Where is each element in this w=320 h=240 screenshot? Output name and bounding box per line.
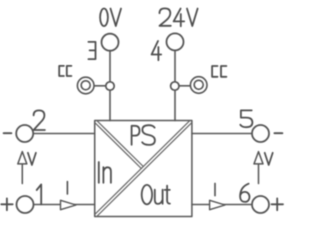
terminal 5 circle: [252, 125, 269, 142]
minus sign at terminal 2: [4, 132, 12, 134]
minus sign at terminal 5: [274, 132, 282, 134]
label cc (left): [59, 66, 71, 76]
plus sign at terminal 6: [272, 198, 284, 210]
wire box right edge to terminal 6: [192, 204, 252, 206]
terminal 3 circle: [102, 34, 119, 51]
input voltage arrow (up): [18, 152, 27, 184]
wire from terminal 3 down to PS box top: [109, 51, 111, 121]
label V at input voltage arrow: [28, 153, 36, 165]
terminal 2 circle: [16, 125, 33, 142]
wire terminal 1 to box left edge: [34, 204, 95, 206]
PS box outline U1: [95, 121, 192, 217]
current arrow on output wire: [210, 200, 225, 209]
label I at output current arrow: [214, 183, 216, 195]
label 2 (terminal number): [34, 110, 45, 130]
PS separator half-diagonal (double line) top-left to center: [95, 121, 144, 169]
wire terminal 2 to box left edge: [34, 133, 95, 135]
label Out: [142, 185, 170, 204]
junction circle on right vertical wire: [171, 82, 179, 90]
wire left shield symbol to junction: [95, 85, 111, 87]
terminal 4 circle: [167, 33, 184, 50]
isolation diagonal (double line) bottom-left to top-right: [95, 121, 192, 217]
plus sign at terminal 1: [1, 198, 13, 210]
wire box right edge to terminal 5: [192, 133, 252, 135]
right shield double-circle symbol: [190, 77, 207, 94]
label PS: [132, 125, 155, 145]
label V at output voltage arrow: [265, 153, 273, 165]
terminal 6 circle: [252, 196, 269, 213]
output voltage arrow (up): [254, 152, 263, 184]
junction circle on left vertical wire: [106, 82, 114, 90]
label In: [99, 162, 111, 183]
label 0V: [100, 8, 121, 26]
label 24V: [160, 8, 198, 26]
left shield double-circle symbol: [77, 77, 94, 94]
current arrow on input wire: [61, 200, 77, 209]
label cc (right): [212, 66, 226, 77]
label 5 (terminal number): [240, 110, 252, 127]
terminal 1 circle: [17, 196, 34, 213]
wire right junction to right shield symbol: [175, 85, 190, 87]
label 4 (terminal number): [152, 41, 162, 60]
wire from terminal 4 down to PS box top: [174, 51, 176, 121]
label 3 (terminal number): [88, 42, 95, 59]
label 1 (terminal number): [37, 184, 42, 204]
label 6 (terminal number): [240, 184, 249, 202]
label I at input current arrow: [66, 182, 68, 194]
